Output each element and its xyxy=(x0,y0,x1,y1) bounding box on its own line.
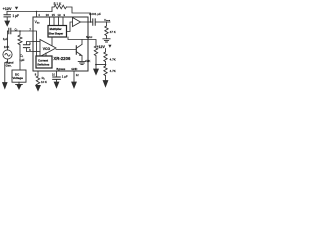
svg-text:10: 10 xyxy=(52,73,55,77)
ground (arrow) pin12 xyxy=(72,82,77,88)
wire rail up to 5.1K xyxy=(52,7,54,12)
block multiplier and sine shaper xyxy=(48,26,67,38)
pin 15 number xyxy=(52,13,56,17)
node +12V label right xyxy=(96,45,111,49)
resistor 4.7K upper xyxy=(104,52,107,62)
pin 8 bottom stub xyxy=(37,71,39,76)
capacitor C1 between pins 5 and 6 xyxy=(27,42,34,52)
pin 4 number xyxy=(38,13,40,17)
svg-text:16: 16 xyxy=(46,13,50,17)
DC voltage source box xyxy=(12,70,26,82)
resistor R1 10K timing xyxy=(36,76,39,86)
svg-text:+12V: +12V xyxy=(3,7,12,11)
junction output node xyxy=(90,21,92,23)
wire buffer output to pin 2 xyxy=(81,21,93,23)
capacitor 0.001uF output xyxy=(93,19,95,25)
ground (arrow) source xyxy=(3,83,7,89)
pin 6 number xyxy=(29,48,31,52)
node Vout label xyxy=(104,18,111,22)
ground (arrow) divider xyxy=(103,81,108,87)
resistor 10K (vertical) xyxy=(19,31,21,35)
resistor 47K sync xyxy=(94,46,97,56)
pin 7 number xyxy=(29,27,31,31)
svg-text:1µF: 1µF xyxy=(19,58,24,62)
svg-text:XR-2206: XR-2206 xyxy=(53,56,71,61)
svg-text:13: 13 xyxy=(57,13,61,17)
wire bypass stub xyxy=(6,12,8,15)
junction sync node xyxy=(95,64,97,66)
svg-text:15: 15 xyxy=(52,13,56,17)
svg-text:47K: 47K xyxy=(85,59,90,63)
resistor 4.7K lower xyxy=(104,66,107,76)
wire output to Vout xyxy=(95,21,110,23)
wire pin6 to VCO xyxy=(33,51,40,53)
svg-text:3: 3 xyxy=(63,13,65,17)
svg-text:4.7K: 4.7K xyxy=(110,58,116,62)
svg-text:4: 4 xyxy=(38,13,40,17)
svg-text:5.1 K: 5.1 K xyxy=(54,2,62,6)
resistor 47K load xyxy=(105,26,108,36)
svg-text:10 K: 10 K xyxy=(41,80,47,84)
wire multiplier to VCO xyxy=(51,37,53,46)
svg-text:10K: 10K xyxy=(4,45,10,49)
wire to pin 9 arrow xyxy=(95,65,97,70)
wire Vout down branch xyxy=(106,22,108,26)
svg-text:Multiplier: Multiplier xyxy=(50,27,62,31)
wire sync resistor to divider node xyxy=(95,56,97,65)
svg-text:5: 5 xyxy=(29,42,31,46)
svg-text:Voltage: Voltage xyxy=(13,76,24,80)
node Bypass label xyxy=(56,67,65,71)
node sync label xyxy=(86,35,93,39)
wire multiplier to buffer xyxy=(67,22,73,32)
pin 16 number xyxy=(46,13,50,17)
wire pin 11 sync line xyxy=(68,37,96,46)
wire +12V rail xyxy=(7,11,52,13)
pin 5 number xyxy=(29,42,31,46)
wire source bottom to ground xyxy=(5,59,8,83)
capacitor C series coupling xyxy=(9,28,11,34)
ground (arrow) R1 xyxy=(37,85,39,87)
pin 10 bottom stub xyxy=(56,71,58,77)
svg-text:8: 8 xyxy=(35,72,37,76)
node GND label xyxy=(71,67,77,71)
svg-text:VCO: VCO xyxy=(43,47,51,51)
op-amp buffer x1 xyxy=(73,18,81,27)
transistor Q1 sync output xyxy=(56,49,76,51)
ground (arrow) below bypass cap xyxy=(6,17,8,21)
wire 5.1K to output junction xyxy=(66,7,90,22)
svg-text:Switches: Switches xyxy=(37,63,50,67)
junction pin7 node xyxy=(19,30,21,32)
capacitor 1uF bypass xyxy=(4,15,10,17)
svg-text:1 µF: 1 µF xyxy=(62,75,68,79)
block current switches xyxy=(36,56,52,68)
svg-text:Sine Shaper: Sine Shaper xyxy=(49,32,63,35)
ground (bars) below 47K xyxy=(106,36,108,39)
wire stubs top edge into multiplier xyxy=(50,17,64,26)
wire +12V to divider xyxy=(105,49,107,52)
wire current switches to VCO xyxy=(45,53,47,56)
ground (bar+arrow) below DC box xyxy=(16,82,23,84)
svg-text:0.001 µF: 0.001 µF xyxy=(89,12,101,16)
IC box XR-2206 xyxy=(33,17,88,71)
wire signal source stub up xyxy=(7,31,9,50)
svg-text:C₂: C₂ xyxy=(15,29,18,32)
svg-text:Sync: Sync xyxy=(86,35,93,39)
wire pin5 to VCO xyxy=(33,41,40,43)
wire pin7 internal to current switches xyxy=(33,31,37,56)
svg-text:12: 12 xyxy=(76,73,79,77)
junction divider midpoint xyxy=(105,64,107,66)
svg-text:Bypass: Bypass xyxy=(56,67,65,71)
wire divider midpoint xyxy=(96,62,106,66)
op-amp VCO triangle xyxy=(40,40,56,57)
wire 10K down to DC box xyxy=(19,45,21,70)
ground (arrow) pin10 cap xyxy=(56,80,58,83)
ground (bars) emitter xyxy=(78,61,86,64)
svg-text:1 µF: 1 µF xyxy=(13,14,19,18)
wire lower 4.7K to ground xyxy=(105,76,107,81)
svg-text:V₃₃: V₃₃ xyxy=(35,20,41,24)
pin 3 number xyxy=(63,13,65,17)
pin 12 bottom stub xyxy=(73,71,75,82)
wire stub rail to pin 4 xyxy=(36,12,38,18)
node +12V label top-left xyxy=(3,7,19,11)
svg-text:Gen.: Gen. xyxy=(6,63,12,67)
pin 13 number xyxy=(57,13,61,17)
wire input line to pin 7 xyxy=(8,30,34,32)
svg-text:47 K: 47 K xyxy=(110,30,116,34)
svg-text:Vₒ₌ₐ: Vₒ₌ₐ xyxy=(104,18,111,22)
capacitor 1uF bypass pin10 xyxy=(53,77,61,79)
source sine generator circle xyxy=(3,50,12,59)
resistor 5.1K (horizontal) xyxy=(54,5,66,9)
svg-text:4.7K: 4.7K xyxy=(110,69,116,73)
junction rail/pin4 xyxy=(36,11,37,12)
node C2 label xyxy=(15,29,18,32)
